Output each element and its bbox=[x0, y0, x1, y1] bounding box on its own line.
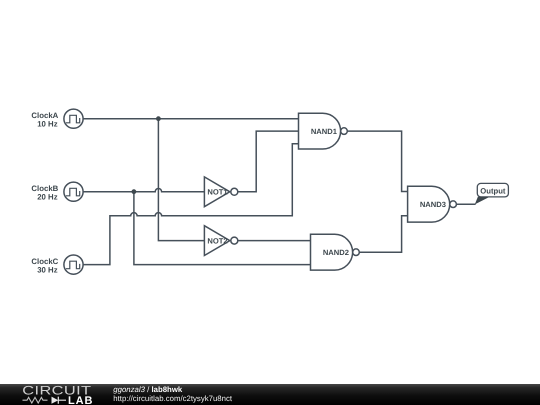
svg-text:NOT2: NOT2 bbox=[207, 236, 227, 245]
clock source ClockB bbox=[64, 182, 83, 201]
junction node on ClockA wire bbox=[156, 116, 161, 121]
clock source ClockC bbox=[64, 255, 83, 274]
footer bar bbox=[0, 384, 540, 405]
svg-text:http://circuitlab.com/c2tysyk7: http://circuitlab.com/c2tysyk7u8nct bbox=[113, 394, 233, 403]
svg-text:ggonzal3 / lab8hwk: ggonzal3 / lab8hwk bbox=[113, 385, 183, 394]
svg-text:NAND2: NAND2 bbox=[323, 248, 349, 257]
output flag Output bbox=[475, 183, 509, 204]
svg-text:30 Hz: 30 Hz bbox=[37, 265, 57, 274]
wire ClockB branch down to NAND2 input 2 bbox=[134, 192, 311, 265]
wire ClockA output to NAND1 input 1 bbox=[83, 118, 298, 120]
svg-text:NAND3: NAND3 bbox=[420, 200, 446, 209]
wire ClockC output to NAND1 input 3 (hops over two verticals) bbox=[83, 144, 298, 265]
svg-text:NOT1: NOT1 bbox=[207, 188, 228, 197]
wire NAND3 output to Output flag bbox=[456, 203, 475, 205]
clock source ClockA bbox=[64, 109, 83, 128]
wire ClockB output to NOT1 input (hop over ClockA branch) bbox=[83, 189, 204, 192]
wire NAND2 output to NAND3 input 2 bbox=[359, 216, 407, 252]
wire ClockA branch down to NOT2 input bbox=[158, 119, 204, 241]
svg-text:Output: Output bbox=[480, 187, 506, 196]
wire NAND1 output to NAND3 input 1 bbox=[347, 131, 407, 191]
wire NOT2 output to NAND2 input 1 bbox=[238, 240, 311, 242]
inverter NOT1 bbox=[204, 177, 237, 207]
svg-text:NAND1: NAND1 bbox=[311, 127, 338, 136]
nand gate NAND2 bbox=[311, 234, 360, 270]
inverter NOT2 bbox=[204, 226, 237, 256]
CircuitLab logo diode bbox=[52, 397, 67, 404]
svg-text:20 Hz: 20 Hz bbox=[37, 193, 57, 202]
wire NOT1 output to NAND1 input 2 bbox=[238, 131, 299, 192]
junction node on ClockB wire bbox=[132, 189, 137, 194]
nand gate NAND3 bbox=[408, 186, 457, 222]
CircuitLab logo resistor zigzag bbox=[23, 397, 48, 403]
svg-text:10 Hz: 10 Hz bbox=[37, 120, 57, 129]
nand gate NAND1 bbox=[299, 113, 348, 149]
svg-text:LAB: LAB bbox=[68, 395, 93, 405]
